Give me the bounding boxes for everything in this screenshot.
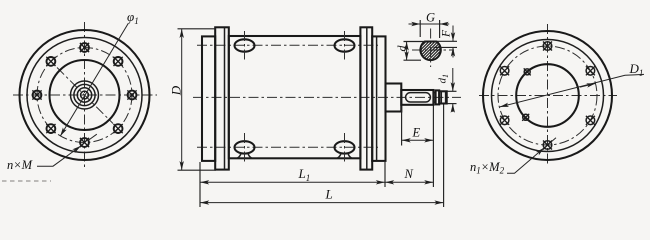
right view bolt hole 150deg [500,66,509,75]
dimension F upper arrow [452,26,454,42]
svg-text:d: d [394,45,408,52]
left view spigot circle [50,60,120,130]
F extension top [437,40,458,42]
slot top-right [335,39,355,51]
right end cap [372,36,385,160]
shaft [401,90,433,105]
threaded stub [439,91,447,103]
shaft section outline with key flat [420,42,440,61]
E extension left [401,106,403,146]
scan artifact dashes [2,180,51,182]
left view bolt hole 90deg [80,43,89,52]
right view horizontal centerline [479,95,617,97]
E dimension line [402,139,433,141]
svg-text:D: D [168,85,183,96]
left view outer circle [20,30,150,160]
d1 dimension lower arrow [452,104,454,112]
detail vertical centerline [430,29,432,68]
right view bolt hole 210deg [500,116,509,125]
right view bolt circle [498,46,597,145]
left view 45-degree centerline [57,68,113,124]
slot bottom-right [335,141,355,153]
d extension top [404,41,426,43]
stator body [229,36,361,158]
D1 second arrow [580,83,596,87]
thread line 1 [440,91,442,103]
D extension bottom [178,169,217,171]
left view bolt hole 0deg [127,90,136,99]
leader tail past hole [551,138,556,142]
left view horizontal centerline [13,94,157,96]
svg-text:F: F [441,29,453,38]
D dimension line [181,29,183,170]
svg-text:E: E [412,126,421,140]
slot row centerline bottom [197,146,378,148]
left view bolt hole 225deg [46,124,55,133]
slot row centerline top [197,44,378,46]
svg-text:L: L [325,187,333,202]
detail horizontal centerline [412,49,454,51]
svg-text:n×M: n×M [7,158,33,172]
leader for D1 [500,74,644,107]
svg-text:n1×M2: n1×M2 [470,160,505,176]
left view bolt circle [37,48,132,143]
shaft boss [386,84,402,112]
shaft neck [433,93,435,103]
L dimension line [200,202,443,204]
d1 extension top [447,90,457,92]
section hatching [419,0,443,100]
left view bolt hole 45deg [114,57,123,66]
right view bolt hole 90deg [543,42,552,51]
L1/N shared extension [384,162,386,187]
slot top-left [235,39,255,51]
L1 dimension line [200,181,385,183]
left view bolt hole 315deg [114,124,123,133]
main shaft centerline [193,96,461,98]
L left extension [199,162,201,207]
left view hub circle 3 [77,88,91,102]
slot foot left [237,153,251,158]
leader for phi1 [60,23,128,136]
G extension left [419,20,421,37]
leader for nxM [37,146,81,166]
thread line 2 [445,91,447,103]
N dimension line [385,181,433,183]
L right extension [443,105,445,208]
slot bottom-left [235,141,255,153]
left view bolt hole 270deg [80,138,89,147]
E right extension (shaft end) [432,106,434,188]
d extension bottom [404,59,422,61]
right view bolt hole 270deg [543,141,552,150]
right view outer circle [483,31,612,160]
leader tail past hole [88,134,97,140]
left view bolt hole 180deg [32,90,41,99]
right flange plate joint line [366,27,368,169]
G extension right [439,20,441,38]
slot foot right [337,153,351,158]
leader for n1xM2 [507,148,544,174]
dimension G line [409,23,450,25]
dimension d line [406,42,408,61]
dimension G right arrow [440,23,449,25]
left end cap [202,36,215,160]
shaft collar [436,90,440,104]
left view hub circle 1 [71,81,99,109]
left view hub circle 4 [81,91,89,99]
svg-text:G: G [426,11,435,25]
F extension bottom [434,46,458,48]
dimension G left arrow [411,23,420,25]
left flange plate joint line [224,27,226,169]
left view vertical centerline [84,22,86,170]
slot tick bottom-left [244,133,246,162]
right view bolt hole 330deg [586,116,595,125]
right view vertical centerline [547,24,549,166]
right view small hole 225deg [522,114,529,121]
slot tick bottom-right [344,133,346,162]
right end cap joint line [376,36,378,160]
D extension top [178,28,217,30]
left view hub circle 2 [74,84,95,105]
left view bolt hole 135deg [46,57,55,66]
right view bolt hole 30deg [586,66,595,75]
slot tick top-left [244,31,246,60]
left view rim circle [27,38,142,153]
dimension F lower arrow [452,48,454,58]
svg-text:N: N [404,167,414,181]
right flange plate [360,27,372,169]
right view spigot circle [516,64,579,127]
right view small hole 130deg [524,68,531,75]
d1 extension bottom [447,103,457,105]
shaft keyway [406,93,431,102]
left flange plate [215,27,229,169]
d1 dimension upper arrow [452,68,454,91]
slot tick top-right [344,31,346,60]
right view rim circle [492,40,604,152]
